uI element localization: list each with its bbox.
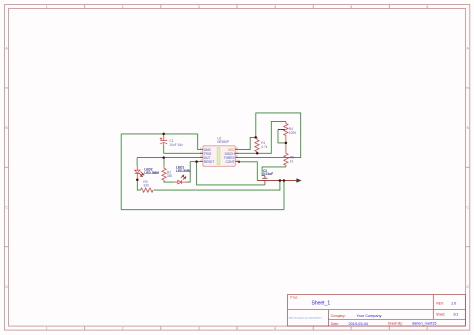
svg-text:1k: 1k bbox=[290, 159, 294, 163]
svg-text:Date:: Date: bbox=[331, 322, 339, 326]
resistor R5 bbox=[284, 143, 288, 167]
net flag arrow bbox=[257, 180, 297, 182]
frame zone letters left bbox=[5, 47, 8, 289]
wire bottom rail bbox=[121, 209, 284, 211]
resistor R3 bbox=[141, 188, 154, 192]
svg-text:LED-5MM: LED-5MM bbox=[176, 169, 191, 173]
svg-text:B: B bbox=[467, 126, 469, 130]
wire LED1 cathode riser bbox=[187, 162, 191, 183]
U1 pin stubs bbox=[200, 150, 239, 162]
svg-text:0.01uF: 0.01uF bbox=[263, 172, 273, 176]
frame zone numbers top bbox=[46, 5, 429, 9]
svg-text:Sheet_1: Sheet_1 bbox=[312, 301, 331, 307]
svg-text:100K: 100K bbox=[289, 131, 297, 135]
svg-text:CONT: CONT bbox=[225, 160, 234, 164]
resistor R1 bbox=[255, 137, 259, 153]
U1 pin numbers bbox=[200, 148, 238, 162]
svg-text:5: 5 bbox=[350, 5, 352, 9]
wire RESET drop to C2 bottom bbox=[197, 162, 265, 185]
node CONT pin dot bbox=[238, 161, 240, 163]
wire top rail bbox=[121, 133, 198, 135]
junction dots bbox=[136, 133, 287, 182]
svg-text:LED-5MM: LED-5MM bbox=[144, 171, 159, 175]
frame zone numbers bottom bbox=[46, 327, 429, 331]
svg-text:1: 1 bbox=[46, 5, 48, 9]
LED LED2 bbox=[135, 166, 140, 180]
svg-text:TITLE:: TITLE: bbox=[290, 296, 299, 300]
wire VCC jog bbox=[239, 137, 256, 149]
svg-text:4: 4 bbox=[274, 5, 276, 9]
svg-text:Sheet:: Sheet: bbox=[436, 313, 445, 317]
svg-text:Drawn By:: Drawn By: bbox=[388, 322, 403, 326]
svg-text:REV:: REV: bbox=[436, 301, 443, 305]
svg-text:4: 4 bbox=[274, 327, 276, 331]
svg-text:Company:: Company: bbox=[331, 314, 346, 318]
svg-text:https://easyeda.com about/edit: https://easyeda.com about/editors bbox=[289, 317, 323, 320]
wire CONT drop bbox=[239, 162, 257, 181]
wire R2 to LED1 anode bbox=[164, 181, 174, 183]
wire OUT line bbox=[137, 157, 200, 159]
wire R5 to C2 top bbox=[262, 167, 286, 176]
wire R4 tap loop bbox=[278, 130, 286, 143]
svg-text:1/1: 1/1 bbox=[453, 313, 458, 317]
svg-text:2: 2 bbox=[122, 327, 124, 331]
svg-text:330: 330 bbox=[143, 184, 149, 188]
wire left rail bbox=[120, 134, 122, 210]
wire GND pin bbox=[198, 134, 200, 150]
svg-text:B: B bbox=[6, 126, 8, 130]
svg-text:5: 5 bbox=[350, 327, 352, 331]
svg-text:10uF 16v: 10uF 16v bbox=[169, 143, 183, 147]
capacitor C2 bbox=[262, 176, 267, 185]
resistor R2 bbox=[162, 167, 166, 181]
svg-text:2019-03-04: 2019-03-04 bbox=[349, 322, 368, 326]
wire THRES loop bbox=[239, 113, 301, 158]
svg-text:Your Company: Your Company bbox=[357, 314, 382, 318]
svg-text:6: 6 bbox=[427, 5, 429, 9]
resistor R4 bbox=[284, 121, 288, 142]
wire OUT to LED2 bbox=[136, 158, 138, 166]
svg-text:1: 1 bbox=[46, 327, 48, 331]
wire R2 top stub bbox=[163, 158, 165, 167]
wire RESET line bbox=[190, 161, 200, 163]
svg-text:1.0: 1.0 bbox=[451, 301, 456, 305]
wire LED2 to R3 bbox=[137, 180, 140, 190]
wire TRIG from C1 bbox=[164, 146, 200, 154]
LED LED1 bbox=[174, 180, 186, 184]
svg-text:NE555P: NE555P bbox=[217, 140, 229, 144]
svg-text:darien_roett15: darien_roett15 bbox=[412, 322, 437, 326]
svg-text:RESET: RESET bbox=[204, 160, 215, 164]
svg-text:6: 6 bbox=[427, 327, 429, 331]
svg-text:3: 3 bbox=[198, 327, 200, 331]
wire R3 to net line bbox=[154, 181, 280, 191]
svg-text:2: 2 bbox=[122, 5, 124, 9]
op-amp U1 555 timer body bbox=[203, 146, 235, 167]
wire DISCH loop bbox=[239, 121, 286, 153]
wire bottom rail riser bbox=[283, 181, 285, 210]
U1 pin names bbox=[204, 148, 215, 164]
capacitor C1 bbox=[160, 134, 167, 146]
frame zone letters right bbox=[467, 47, 470, 289]
svg-text:4.7k: 4.7k bbox=[261, 145, 267, 149]
svg-text:3: 3 bbox=[198, 5, 200, 9]
svg-text:330: 330 bbox=[167, 174, 173, 178]
wire R4 tap (dark red) bbox=[278, 129, 285, 131]
